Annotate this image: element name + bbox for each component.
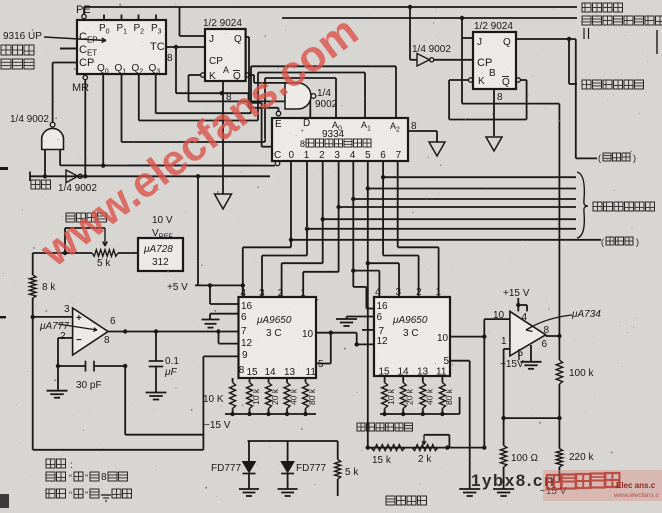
svg-text:μA9650: μA9650 <box>392 315 428 326</box>
svg-text:−: − <box>76 335 82 346</box>
svg-text:15: 15 <box>379 367 391 378</box>
svg-text:−15 V: −15 V <box>204 420 231 431</box>
svg-text:”: ” <box>85 490 88 500</box>
svg-text:5: 5 <box>444 356 450 367</box>
svg-text:10 k: 10 k <box>251 388 261 405</box>
svg-text:Elec ans.c: Elec ans.c <box>616 481 656 490</box>
svg-text:3 C: 3 C <box>266 328 282 339</box>
svg-text:312: 312 <box>152 257 169 268</box>
svg-text:1: 1 <box>304 150 310 161</box>
svg-text:7: 7 <box>241 326 247 337</box>
svg-text:8: 8 <box>101 472 107 483</box>
svg-text:8: 8 <box>544 325 550 336</box>
svg-text:1/2 9024: 1/2 9024 <box>474 21 513 32</box>
svg-text:12: 12 <box>241 338 253 349</box>
svg-text:2: 2 <box>319 150 325 161</box>
svg-text:10 K: 10 K <box>203 394 224 405</box>
svg-text:(: ( <box>601 237 604 247</box>
svg-text:): ) <box>633 153 636 163</box>
svg-text:6: 6 <box>542 339 548 350</box>
svg-text:1/2 9024: 1/2 9024 <box>203 18 242 29</box>
svg-text::: : <box>70 460 73 471</box>
svg-text:8 k: 8 k <box>42 282 56 293</box>
svg-text:8: 8 <box>411 121 417 132</box>
svg-text:B: B <box>489 68 496 79</box>
svg-text:14: 14 <box>265 367 277 378</box>
svg-text:5: 5 <box>365 150 371 161</box>
svg-text:9: 9 <box>242 350 248 361</box>
svg-text:0.1: 0.1 <box>165 356 179 367</box>
svg-text:A: A <box>223 65 229 75</box>
svg-text:): ) <box>636 237 639 247</box>
svg-text:3: 3 <box>396 287 402 298</box>
svg-text:20 k: 20 k <box>270 388 280 405</box>
svg-text:Q: Q <box>234 34 242 45</box>
svg-text:8: 8 <box>497 92 503 103</box>
svg-text:FD777: FD777 <box>296 463 326 474</box>
svg-text:Q: Q <box>502 77 510 88</box>
svg-text:220 k: 220 k <box>569 452 594 463</box>
svg-text:5 k: 5 k <box>97 258 111 269</box>
svg-text:μA728: μA728 <box>143 244 173 255</box>
svg-text:K: K <box>478 76 485 87</box>
svg-text:20 k: 20 k <box>405 388 415 405</box>
svg-text:“: “ <box>69 473 72 483</box>
svg-text:1: 1 <box>501 336 507 347</box>
svg-text:+5 V: +5 V <box>167 282 188 293</box>
svg-text:FD777: FD777 <box>211 463 241 474</box>
svg-text:Q: Q <box>503 37 511 48</box>
svg-text:10: 10 <box>437 333 449 344</box>
svg-text:1/4 9002: 1/4 9002 <box>10 114 49 125</box>
svg-text:1: 1 <box>300 288 306 299</box>
svg-text:6: 6 <box>110 316 116 327</box>
svg-text:E: E <box>275 119 282 130</box>
svg-text:10: 10 <box>302 329 314 340</box>
svg-text:2: 2 <box>416 287 422 298</box>
svg-text:3 C: 3 C <box>403 328 419 339</box>
svg-text:D: D <box>303 118 310 129</box>
svg-text:11: 11 <box>436 367 447 378</box>
svg-text:J: J <box>209 34 214 45</box>
svg-text:μA734: μA734 <box>571 309 601 320</box>
svg-text:10 V: 10 V <box>152 215 173 226</box>
svg-text:7: 7 <box>396 150 402 161</box>
svg-text:−15V: −15V <box>500 359 524 370</box>
svg-text:8: 8 <box>167 53 173 64</box>
svg-text:1/4: 1/4 <box>317 88 331 99</box>
svg-text:3: 3 <box>259 288 265 299</box>
svg-text:CP: CP <box>79 57 94 69</box>
svg-text:6: 6 <box>380 150 386 161</box>
svg-text:3: 3 <box>64 304 70 315</box>
svg-text:100 k: 100 k <box>569 368 594 379</box>
svg-text:TC: TC <box>150 41 165 53</box>
svg-text:PE: PE <box>76 4 91 16</box>
svg-text:C: C <box>274 150 281 161</box>
svg-text:8: 8 <box>104 335 110 346</box>
svg-text:1: 1 <box>436 287 442 298</box>
svg-text:4: 4 <box>375 287 381 298</box>
svg-text:15: 15 <box>247 367 259 378</box>
svg-text:2 k: 2 k <box>418 454 432 465</box>
svg-text:9002: 9002 <box>315 99 338 110</box>
svg-text:13: 13 <box>284 367 296 378</box>
svg-text:K: K <box>209 71 216 82</box>
svg-text:40 k: 40 k <box>424 388 434 405</box>
svg-text:5 k: 5 k <box>345 467 359 478</box>
svg-text:8: 8 <box>300 139 305 149</box>
svg-text:4: 4 <box>241 288 247 299</box>
svg-text:“: “ <box>69 490 72 500</box>
svg-text:MR: MR <box>72 82 89 94</box>
svg-text:3: 3 <box>334 150 340 161</box>
svg-text:14: 14 <box>398 367 410 378</box>
svg-text:8: 8 <box>239 365 245 376</box>
svg-text:80 k: 80 k <box>444 388 454 405</box>
svg-text:30 pF: 30 pF <box>76 380 102 391</box>
svg-text:13: 13 <box>417 367 429 378</box>
svg-text:16: 16 <box>377 301 389 312</box>
svg-text:www.elecfans.c: www.elecfans.c <box>613 492 660 499</box>
svg-text:μA9650: μA9650 <box>256 315 292 326</box>
svg-text:10: 10 <box>493 310 505 321</box>
svg-text:2: 2 <box>278 288 284 299</box>
svg-text:J: J <box>477 37 482 48</box>
svg-text:6: 6 <box>241 312 247 323</box>
svg-text:”: ” <box>85 473 88 483</box>
svg-text:μF: μF <box>164 367 177 378</box>
svg-text:(: ( <box>598 153 601 163</box>
svg-text:15 k: 15 k <box>372 455 392 466</box>
svg-text:80 k: 80 k <box>307 388 317 405</box>
svg-text:+15 V: +15 V <box>503 288 530 299</box>
svg-text:10 k: 10 k <box>386 388 396 405</box>
svg-text:4: 4 <box>350 150 356 161</box>
svg-text:40 k: 40 k <box>289 388 299 405</box>
svg-text:2: 2 <box>60 331 66 342</box>
svg-text:12: 12 <box>377 336 389 347</box>
svg-text:9316 UP: 9316 UP <box>3 31 42 42</box>
svg-text:9334: 9334 <box>322 129 345 140</box>
svg-text:100 Ω: 100 Ω <box>511 453 538 464</box>
svg-text:5: 5 <box>318 359 324 370</box>
svg-text:CP: CP <box>209 56 223 67</box>
svg-text:16: 16 <box>241 301 253 312</box>
svg-text:4: 4 <box>522 312 528 323</box>
svg-text:11: 11 <box>306 367 317 378</box>
svg-text:0: 0 <box>289 150 295 161</box>
svg-text:μA777: μA777 <box>39 321 69 332</box>
svg-text:+: + <box>76 313 82 324</box>
svg-text:6: 6 <box>377 312 383 323</box>
